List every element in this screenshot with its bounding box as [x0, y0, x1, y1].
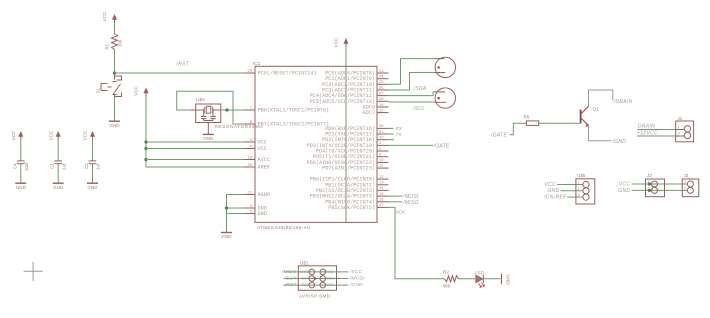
svg-text:/GATE: /GATE: [490, 133, 507, 139]
pin 5 GND: [244, 213, 255, 215]
pin 31 PD1(TXD/PCINT17): [377, 133, 389, 135]
resistor R5: [526, 121, 538, 126]
junction J2 pin1: [648, 182, 651, 185]
resistor R1 10k: [112, 34, 118, 50]
wire /SCL to pad2 bottom: [389, 101, 435, 103]
wire LED to GND: [483, 278, 500, 280]
wire U$2 to ground: [207, 123, 209, 135]
svg-text:/VCC: /VCC: [349, 269, 363, 275]
svg-text:VCC: VCC: [83, 130, 88, 140]
pin 7 PB6(XTAL1/TOSC1/PCINT6): [244, 109, 255, 111]
op-amp IC1 ATMEGA48/88/168-AU body: [255, 66, 377, 222]
wire /RST net to IC pin 29: [115, 72, 245, 74]
junction J2 pin2: [648, 189, 651, 192]
capacitor C4 10uf: [17, 160, 25, 162]
svg-text:PB6(XTAL1/TOSC1/PCINT6): PB6(XTAL1/TOSC1/PCINT6): [258, 108, 330, 114]
wire /MOSI from pin 15: [389, 195, 403, 197]
svg-text:.1uf: .1uf: [61, 163, 66, 171]
pin 21 AGND: [244, 194, 255, 196]
pin 3 GND: [244, 207, 255, 209]
junction VCC pin6: [144, 147, 147, 150]
svg-text:/GND: /GND: [349, 282, 363, 288]
resistor R2 499: [445, 276, 459, 282]
svg-text:RESONATOR04MG: RESONATOR04MG: [215, 124, 264, 129]
svg-text:/MISO: /MISO: [402, 200, 419, 206]
svg-text:GND: GND: [326, 283, 334, 287]
svg-text:VCC: VCC: [134, 85, 139, 95]
svg-text:J2: J2: [647, 173, 652, 178]
LED diode: [476, 275, 483, 283]
pin 8 PB7(XTAL2/TOSC2/PCINT7): [244, 123, 255, 125]
pin 15 PB3(MOSI/OC2A/PCINT3): [377, 195, 389, 197]
wire Q1 drain: [589, 90, 613, 106]
svg-text:15: 15: [379, 191, 384, 196]
wire RX stub: [389, 127, 394, 129]
svg-text:R1: R1: [105, 43, 110, 49]
svg-text:32: 32: [379, 135, 384, 140]
pin 18 AVCC: [244, 159, 255, 161]
svg-text:24: 24: [379, 74, 384, 79]
pin 13 PB1(OC1A/PCINT1): [377, 184, 389, 186]
wire AVRISP row MISO/VCC: [284, 271, 349, 273]
svg-text:ATMEGA48/88/168-AU: ATMEGA48/88/168-AU: [257, 225, 311, 230]
ground GND under C3: [87, 182, 98, 184]
wire VCC down through IC: [345, 46, 347, 222]
power VCC (C4): [20, 134, 22, 140]
resonator U$2: [196, 104, 221, 123]
svg-text:21: 21: [248, 189, 253, 194]
svg-text:/DRAIN: /DRAIN: [613, 99, 633, 105]
wire INT0 stub: [389, 139, 395, 141]
pin 10 PD6(AIN0/OC0A/PCINT22): [377, 161, 389, 163]
svg-text:U$5: U$5: [577, 173, 586, 178]
wire C2 to GND: [57, 164, 59, 183]
wire VCC to C4: [20, 139, 22, 161]
capacitor C2 .1uf: [54, 160, 62, 162]
power VCC (C2): [57, 134, 59, 140]
svg-text:1: 1: [678, 125, 680, 129]
wire /MISO from pin 16: [389, 201, 403, 203]
svg-text:ADC7: ADC7: [363, 110, 375, 116]
svg-text:LED: LED: [475, 270, 485, 275]
svg-text:/GATE: /GATE: [433, 143, 450, 149]
svg-text:23: 23: [379, 68, 384, 73]
svg-text:GND: GND: [109, 123, 120, 128]
svg-text:S1: S1: [96, 88, 101, 94]
svg-text:C2: C2: [50, 163, 55, 169]
pin 12 PB0(ICP1/CLKO/PCINT0): [377, 178, 389, 180]
wire AVRISP row RST/GND: [284, 284, 349, 286]
svg-text:/SCK: /SCK: [284, 276, 298, 282]
svg-text:25: 25: [379, 79, 384, 84]
svg-text:VCC: VCC: [545, 182, 557, 188]
svg-text:20: 20: [248, 162, 253, 167]
svg-text:14: 14: [379, 185, 384, 190]
power VCC (R1 pull-up): [114, 17, 116, 23]
svg-text:VCC: VCC: [326, 270, 334, 274]
svg-text:GND: GND: [618, 188, 630, 194]
wire /GATE from pin 1: [389, 144, 434, 146]
transistor Q1: [580, 110, 582, 124]
pin 29 PC6(/RESET/PCINT14): [244, 72, 255, 74]
pin 6 VCC: [244, 148, 255, 150]
svg-text:2: 2: [684, 187, 686, 191]
svg-text:AREF: AREF: [258, 165, 270, 171]
svg-text:2: 2: [678, 132, 680, 136]
pin 4 VCC: [244, 141, 255, 143]
pin 9 PD5(T1/OC0B/PCINT21): [377, 156, 389, 158]
svg-text:/GND: /GND: [612, 139, 627, 145]
pin 27 PC4(ADC4/SDA/PCINT12): [377, 95, 389, 97]
wire GND pin3: [227, 207, 245, 209]
svg-text:PC6(/RESET/PCINT14): PC6(/RESET/PCINT14): [258, 71, 317, 77]
wire C4 to GND: [20, 164, 22, 183]
power VCC (analog feed): [145, 90, 147, 96]
connector U$5: [576, 179, 595, 204]
wire GND J2 to J3: [632, 189, 688, 191]
svg-text:22: 22: [379, 107, 384, 112]
svg-text:VCC: VCC: [48, 130, 53, 140]
svg-text:J3: J3: [684, 173, 689, 178]
svg-text:499: 499: [443, 283, 451, 288]
svg-text:30: 30: [379, 123, 384, 128]
svg-text:C3: C3: [84, 163, 89, 169]
svg-text:U$1: U$1: [300, 260, 309, 265]
svg-text:VCC: VCC: [619, 181, 631, 187]
wire R2 to LED: [459, 278, 476, 280]
svg-text:/MISO: /MISO: [281, 269, 297, 275]
origin cross: [24, 270, 43, 272]
svg-text:31: 31: [379, 129, 384, 134]
pin U$2 left: [190, 109, 196, 111]
svg-text:1: 1: [684, 180, 686, 184]
svg-text:U$2: U$2: [196, 97, 205, 103]
wire DRAIN to J1 pin 1: [637, 129, 684, 131]
svg-text:VCC: VCC: [333, 37, 338, 47]
svg-text:J1: J1: [678, 116, 683, 121]
connector J1: [676, 121, 694, 142]
wire CN-REF to U$5: [568, 196, 584, 198]
svg-text:19: 19: [379, 102, 384, 107]
power VCC (C3): [92, 134, 94, 140]
svg-text:AGND: AGND: [258, 192, 270, 198]
pin U$2 right + wire XTAL1 to IC pin 7: [221, 109, 244, 111]
pin 22 ADC7: [377, 112, 389, 114]
wire +12VCC to J1 pin 2: [637, 135, 684, 137]
pin 32 PD2(INT0/PCINT18): [377, 139, 389, 141]
svg-text:RX: RX: [396, 126, 403, 131]
pin 28 PC5(ADC5/SCL/PCINT13): [377, 100, 389, 102]
svg-text:/RST: /RST: [284, 282, 298, 288]
wire VCC to C3: [92, 139, 94, 161]
pin 11 PD7(AIN1/PCINT23): [377, 167, 389, 169]
svg-text:AVRISP-SMD: AVRISP-SMD: [299, 294, 331, 299]
power VCC above IC: [345, 41, 347, 47]
svg-text:1: 1: [578, 181, 580, 185]
wire SCK from pin 17 down to LED row: [389, 207, 445, 278]
svg-text:VCC: VCC: [258, 146, 267, 152]
wire VCC to C2: [57, 139, 59, 161]
wire AVRISP row SCK/MOSI: [284, 278, 349, 280]
ground GND under IC: [221, 232, 232, 234]
pin 24 PC1(ADC1/PCINT9): [377, 78, 389, 80]
pin 17 PB5(SCK/PCINT5): [377, 206, 389, 208]
pin 2 PD4(T0/XCK/PCINT20): [377, 150, 389, 152]
ground GND under C2: [53, 182, 64, 184]
svg-text:PD7(AIN1/PCINT23): PD7(AIN1/PCINT23): [322, 166, 375, 172]
junction XTAL1: [225, 108, 228, 111]
wire C3 to GND: [92, 164, 94, 183]
pin 30 PD0(RXD/PCINT16): [377, 127, 389, 129]
svg-text:Q1: Q1: [593, 106, 600, 111]
pad circle bottom: [435, 88, 455, 108]
svg-text:VCC: VCC: [11, 130, 16, 140]
wire GATE to R5: [510, 123, 527, 135]
wire VCC to IC pin 4: [146, 141, 244, 143]
svg-text:GND: GND: [506, 275, 511, 286]
wire R5 to Q1 gate: [539, 122, 580, 124]
svg-text:IC1: IC1: [253, 61, 261, 67]
svg-text:PB7(XTAL2/TOSC2/PCINT7): PB7(XTAL2/TOSC2/PCINT7): [258, 122, 330, 128]
svg-text:/SDA: /SDA: [413, 86, 427, 92]
wire AGND to vertical: [227, 194, 245, 196]
svg-text:GND: GND: [258, 211, 267, 217]
wire /SDA to pad2 top: [389, 92, 435, 96]
connector U$1 AVRISP-SMD: [298, 266, 336, 291]
junction GND: [225, 206, 228, 209]
wire PC2 to pad1 top: [389, 59, 435, 85]
junction AVCC: [144, 158, 147, 161]
pin 26 PC3(ADC3/PCINT11): [377, 89, 389, 91]
svg-text:VCC: VCC: [258, 140, 267, 146]
svg-text:.1uf: .1uf: [96, 163, 101, 171]
wire VCC to IC pin 6: [146, 148, 244, 150]
svg-text:/CN-REF: /CN-REF: [543, 194, 567, 200]
AVRISP pin1 arrow: [314, 277, 317, 281]
svg-text:17: 17: [379, 202, 384, 207]
svg-text:3: 3: [578, 193, 580, 197]
junction RST node: [113, 71, 116, 74]
svg-text:13: 13: [379, 180, 384, 185]
svg-text:29: 29: [248, 68, 253, 73]
pin 19 ADC6: [377, 106, 389, 108]
svg-text:10: 10: [379, 157, 384, 162]
wire VCC vertical feed: [145, 96, 147, 168]
ground GND under S1: [109, 120, 120, 122]
wire VCC J2 to J3: [632, 183, 688, 185]
connector J2: [646, 179, 665, 197]
wire XTAL2 loop: [177, 91, 244, 124]
svg-text:MOSI: MOSI: [326, 277, 335, 281]
ground GND under C4: [15, 182, 26, 184]
wire AVCC to IC pin 18: [146, 159, 244, 161]
wire VCC to R1: [114, 22, 116, 34]
LED arrows: [479, 284, 482, 288]
svg-text:VCC: VCC: [102, 11, 107, 21]
svg-text:R5: R5: [524, 115, 530, 120]
wire AREF to IC pin 20: [146, 166, 244, 168]
pin 16 PB4(MISO/PCINT4): [377, 201, 389, 203]
pad circle top: [435, 57, 455, 77]
pin 23 PC0(ADC0/PCINT8): [377, 72, 389, 74]
svg-text:GND: GND: [87, 185, 98, 190]
svg-text:GND: GND: [53, 185, 64, 190]
svg-text:10k: 10k: [118, 39, 123, 47]
wire VCC to U$5: [557, 184, 583, 186]
svg-text:R2: R2: [443, 270, 449, 275]
wire Q1 source to GND label: [589, 126, 612, 141]
connector J3: [682, 179, 699, 197]
svg-text:RST: RST: [302, 283, 309, 287]
svg-text:DRAIN: DRAIN: [638, 124, 655, 130]
wire GND pin5: [227, 213, 245, 215]
svg-text:TX: TX: [396, 132, 403, 137]
svg-text:/MOSI: /MOSI: [349, 276, 365, 282]
svg-text:PB5(SCK/PCINT5): PB5(SCK/PCINT5): [328, 205, 375, 211]
svg-text:10uf: 10uf: [24, 162, 29, 171]
svg-text:AVCC: AVCC: [258, 157, 270, 163]
svg-text:16: 16: [379, 197, 384, 202]
svg-text:C4: C4: [12, 163, 17, 169]
svg-text:/SCL: /SCL: [412, 106, 425, 112]
svg-text:2: 2: [578, 187, 580, 191]
pin 20 AREF: [244, 166, 255, 168]
svg-text:26: 26: [379, 85, 384, 90]
junction VCC pin4: [144, 140, 147, 143]
wire PC3 to pad1 bottom: [389, 73, 435, 91]
svg-text:GND: GND: [16, 185, 27, 190]
capacitor C3 .1uf: [89, 160, 97, 162]
svg-text:SCK: SCK: [396, 209, 406, 214]
svg-text:/RST: /RST: [176, 62, 190, 68]
wire GND to U$5: [561, 190, 584, 192]
wire TX stub: [389, 133, 394, 135]
pin 25 PC2(ADC2/PCINT10): [377, 83, 389, 85]
pin 14 PB2(SS/OC1B/PCINT2): [377, 189, 389, 191]
ground GND rotated: [501, 273, 503, 284]
svg-text:GND: GND: [203, 136, 214, 141]
pin 1 PD3(INT1/OC2B/PCINT19): [377, 144, 389, 146]
svg-text:28: 28: [379, 96, 384, 101]
switch S1: [114, 73, 116, 80]
wire R1 to junction: [114, 50, 116, 74]
ground GND under U$2: [203, 133, 214, 135]
svg-text:GND: GND: [547, 188, 559, 194]
svg-text:18: 18: [248, 154, 253, 159]
svg-text:MISO: MISO: [300, 270, 309, 274]
svg-text:GND: GND: [221, 234, 232, 239]
wire GND vertical: [226, 195, 228, 233]
svg-text:12: 12: [379, 174, 384, 179]
wire S1 to GND: [114, 97, 116, 122]
svg-text:27: 27: [379, 90, 384, 95]
svg-text:SCK: SCK: [302, 277, 310, 281]
